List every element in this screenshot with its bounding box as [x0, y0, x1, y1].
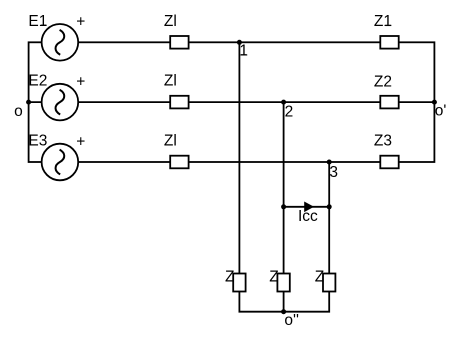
svg-text:Zl: Zl [164, 73, 177, 90]
svg-text:Icc: Icc [298, 208, 318, 225]
svg-text:+: + [76, 74, 85, 91]
svg-text:E1: E1 [28, 13, 47, 30]
svg-text:3: 3 [329, 164, 338, 181]
svg-text:E3: E3 [28, 133, 47, 150]
svg-text:Zl: Zl [164, 133, 177, 150]
svg-text:o'': o'' [284, 312, 299, 329]
svg-text:o: o [14, 103, 23, 120]
svg-text:+: + [76, 14, 85, 31]
svg-text:1: 1 [239, 42, 248, 59]
svg-text:Z3: Z3 [374, 133, 392, 150]
svg-text:Zl: Zl [164, 13, 177, 30]
svg-text:+: + [76, 133, 85, 150]
svg-text:E2: E2 [28, 73, 47, 90]
svg-text:o': o' [435, 103, 447, 120]
svg-text:Z1: Z1 [374, 13, 392, 30]
svg-text:2: 2 [285, 103, 294, 120]
svg-text:Z2: Z2 [374, 73, 392, 90]
